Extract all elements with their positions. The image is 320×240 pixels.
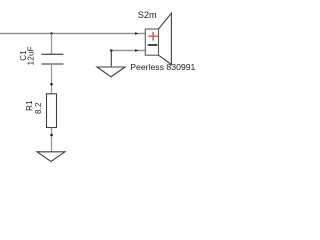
wire top horizontal net [0, 33, 145, 35]
node junction dot below R1 [50, 134, 53, 137]
wire C1 bottom lead [51, 64, 53, 94]
svg-text:S2m: S2m [138, 10, 157, 20]
pin arrow speaker minus pin [135, 49, 138, 51]
wire R1 bottom lead [51, 128, 53, 152]
pin arrow speaker plus pin [135, 32, 138, 34]
speaker minus mark [148, 44, 158, 46]
wire C1 top lead [51, 34, 53, 55]
node junction dot speaker return [110, 49, 113, 52]
resistor R1 [47, 94, 57, 128]
capacitor C1 [42, 54, 64, 64]
speaker S2m horn [159, 13, 172, 64]
ground under R1 [37, 152, 65, 162]
node junction dot between C1 and R1 [50, 83, 53, 86]
svg-text:R1: R1 [25, 100, 34, 111]
ground under speaker return [97, 67, 125, 77]
speaker S2m body [145, 29, 158, 55]
svg-text:8.2: 8.2 [34, 102, 43, 114]
speaker plus mark [148, 32, 158, 41]
svg-text:12uF: 12uF [26, 46, 35, 65]
svg-text:Peerless 830991: Peerless 830991 [130, 62, 195, 72]
wire speaker return net [111, 50, 145, 52]
node junction dot at C1 top [50, 32, 53, 35]
wire ground lead [110, 51, 112, 68]
